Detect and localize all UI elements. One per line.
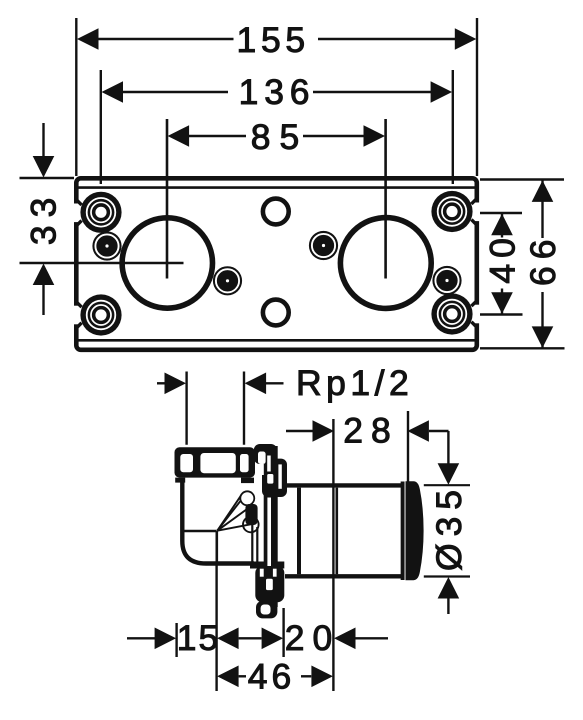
bracket top hook [254, 444, 277, 464]
center hole top [263, 199, 289, 225]
dim 66 line [541, 180, 543, 238]
dim 15/46 ext shared (elbow axis) [215, 564, 217, 691]
dim 40 ext top [480, 212, 522, 214]
dim 40 arrow down [491, 292, 513, 314]
bracket base plate [264, 446, 278, 607]
wire: inner bottom line [79, 339, 475, 342]
dim 66 arrow up [532, 180, 554, 202]
svg-text:85: 85 [251, 117, 309, 157]
seal block [245, 504, 257, 525]
protection cap [406, 481, 424, 580]
dim 33 arrow up [33, 264, 55, 286]
elbow interior horizontal line [183, 530, 217, 533]
dim 85 line [189, 135, 247, 137]
dim 66 ext bottom [480, 347, 565, 349]
dim 136 ext left [100, 70, 102, 184]
dim 46 arrow left [217, 666, 239, 688]
bracket white cutouts [258, 452, 282, 615]
dim 33 arrow down [42, 123, 44, 158]
dim 66 arrow down [532, 326, 554, 348]
large circle right [340, 218, 431, 309]
elbow interior vertical line [216, 531, 219, 564]
corner screw bottom-right [431, 293, 472, 334]
dim 136 line [122, 91, 228, 93]
dim 136 ext right [452, 70, 454, 184]
pipe top edge [285, 483, 404, 487]
union nut body [175, 447, 256, 477]
center hole bottom [263, 300, 289, 326]
dim 155 arrow left [77, 28, 99, 50]
svg-text:136: 136 [239, 72, 316, 112]
nut skirt left [175, 478, 185, 483]
dim 40 line [501, 213, 503, 238]
notch right top [471, 198, 481, 225]
center line horizontal left circle (33 ext) [20, 262, 184, 265]
dim 15 arrow right / 20 arrow left pair [217, 628, 239, 650]
notch right bottom [471, 300, 481, 327]
corner screw top-right [431, 191, 472, 232]
pipe end line [401, 482, 405, 581]
dim 85 arrow right [364, 125, 386, 147]
corner screw top-left [80, 192, 121, 233]
large circle left [122, 218, 212, 308]
dim Rp1/2 ext left [185, 372, 187, 445]
pipe joint line [335, 488, 338, 575]
dim Rp1/2 arrow right [245, 373, 267, 395]
pipe collar line [297, 488, 301, 575]
dim 15 ext left [175, 623, 177, 657]
svg-text:Rp1/2: Rp1/2 [296, 363, 413, 403]
svg-text:46: 46 [248, 657, 296, 697]
svg-text:20: 20 [285, 618, 341, 658]
corner screw bottom-left [80, 294, 121, 335]
dim 28 ext right [407, 411, 409, 483]
dim O35 drop line [447, 431, 449, 464]
dim Rp1/2 arrow left [157, 382, 166, 384]
svg-text:40: 40 [482, 232, 522, 284]
anchor screw B (right of left circle) [213, 266, 242, 295]
dim 20 ext left [282, 608, 284, 657]
elbow right edge double line [251, 525, 253, 562]
anchor screw C (left of right circle) [309, 231, 338, 260]
dim 28 ext left (long line) [332, 419, 334, 691]
dim O35 arrow up [438, 577, 460, 599]
valve seat circle bottom [243, 517, 259, 533]
dim 40 ext bottom [480, 313, 523, 315]
body lower step [250, 562, 284, 569]
notch left top [72, 199, 82, 226]
anchor screw A (below top-left) [92, 231, 121, 260]
wire: inner top line [79, 186, 475, 189]
dim 28 arrow right [407, 420, 429, 442]
valve seat circle top [240, 491, 254, 505]
dim 66 ext top [480, 178, 564, 180]
bracket lower lobe [255, 566, 284, 602]
elbow cone line 4 [217, 524, 253, 531]
dim 155 arrow right [455, 28, 477, 50]
dim 136 arrow right [431, 81, 453, 103]
bracket upper lobe [262, 459, 287, 497]
pipe bottom edge [285, 574, 404, 578]
svg-text:66: 66 [523, 232, 563, 286]
elbow cone line 1 [217, 494, 242, 530]
anchor screw D (right of right circle) [432, 266, 461, 295]
elbow body outline [182, 480, 254, 564]
dim Rp1/2 ext right [243, 372, 245, 445]
dim 155 ext right [476, 18, 478, 176]
dim 155 ext left [75, 18, 77, 176]
bracket bottom hook [256, 601, 277, 619]
dim 136 arrow left [102, 81, 124, 103]
dim 46 arrow right [301, 675, 311, 677]
dim 85 arrow left [168, 125, 190, 147]
dim O35 ext bottom [424, 575, 470, 577]
center line vertical right circle (85 ext) [384, 119, 387, 279]
plate body [76, 178, 477, 349]
dim O35 arrow down [438, 463, 460, 485]
svg-text:28: 28 [343, 411, 399, 451]
elbow cone line 2 [217, 493, 247, 531]
svg-text:33: 33 [23, 190, 63, 246]
svg-text:15: 15 [177, 618, 221, 658]
center line vertical left circle (85 ext) [166, 119, 169, 279]
dim 155 line [98, 38, 234, 40]
notch left bottom [72, 301, 82, 328]
dim 20 arrow right [334, 628, 356, 650]
svg-text:Ø35: Ø35 [429, 483, 469, 571]
nut skirt right [241, 478, 254, 484]
dim 28 arrow left [286, 430, 314, 432]
svg-text:155: 155 [237, 20, 310, 60]
dim 33 ext top [20, 177, 75, 179]
dim 40 arrow up [491, 214, 513, 236]
dim 15 arrow left [127, 637, 156, 639]
dim O35 ext top [424, 484, 470, 486]
elbow cone line 3 [217, 505, 252, 531]
